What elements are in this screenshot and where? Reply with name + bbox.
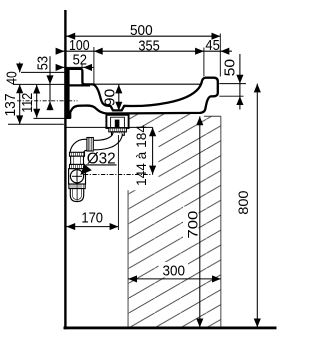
label diameter 32: [80, 151, 116, 175]
trap cup: [70, 189, 83, 202]
trap housing: [69, 169, 86, 184]
washbasin cross-section: [66, 69, 218, 118]
trap S-pipe: [94, 133, 118, 145]
basin deck cut line under rear ledge: [67, 84, 90, 86]
svg-text:53: 53: [34, 56, 51, 70]
elbow lower ring: [70, 152, 85, 156]
svg-text:300: 300: [163, 263, 186, 280]
svg-text:137: 137: [2, 94, 19, 117]
trap body pipe: [71, 156, 84, 164]
svg-text:45: 45: [205, 37, 219, 54]
adjustable-range reference line: [66, 126, 108, 128]
svg-text:700: 700: [185, 210, 201, 238]
fixing holes centreline: [17, 100, 78, 102]
wall: [64, 10, 66, 329]
drain flange nut: [109, 128, 127, 132]
reference line rim top right: [219, 83, 246, 85]
hatch zone top edge (right part): [204, 115, 221, 117]
dimension 90: [101, 85, 122, 111]
hatch zone right edge: [220, 116, 222, 327]
hatched pedestal zone: [128, 113, 221, 328]
trap cleanout circle: [70, 170, 83, 183]
reference line ledge top level: [21, 71, 64, 73]
white label box for 300 dimension: [159, 262, 189, 278]
reference line rim lip bottom: [219, 95, 243, 97]
trap vertical centreline: [76, 170, 78, 201]
svg-text:144 à 184: 144 à 184: [134, 125, 149, 186]
dimension 800: [236, 84, 261, 328]
svg-text:355: 355: [138, 37, 159, 54]
basin far rim line across bowl: [94, 83, 203, 85]
extension line tap ledge edge 52: [81, 64, 83, 86]
extension line 100/355 junction: [93, 47, 95, 85]
reference line basin underside level: [34, 117, 65, 119]
trap outlet centreline: [84, 174, 153, 176]
hatch zone left edge: [127, 113, 129, 328]
svg-text:40: 40: [4, 71, 21, 85]
dimension 144 a 184: [134, 125, 156, 186]
extension line 355/45 junction: [203, 48, 205, 77]
trap inlet nut: [87, 138, 93, 152]
svg-text:800: 800: [236, 190, 251, 214]
drain tail nut: [112, 132, 125, 135]
drain body: [106, 115, 128, 128]
reference line bracket bottom level: [8, 123, 64, 125]
svg-text:90: 90: [101, 89, 118, 107]
dimension 52: [56, 52, 94, 71]
drain recess slant cover: [106, 115, 128, 135]
svg-text:50: 50: [222, 59, 239, 76]
floor: [64, 327, 277, 330]
trap elbow: [70, 139, 88, 155]
svg-text:170: 170: [81, 209, 103, 226]
dimension 40 / 137: [2, 62, 23, 124]
reference line rim top level: [13, 83, 64, 85]
dimension chain 100/355/45: [56, 37, 232, 55]
dimension 700: [185, 116, 204, 327]
dimension 170: [66, 135, 118, 230]
extension line basin right edge: [219, 34, 221, 77]
svg-text:52: 52: [73, 52, 87, 69]
trap collar ring: [70, 164, 85, 168]
dimension 112: [19, 85, 40, 118]
trap lower ring: [69, 184, 85, 189]
white label box for 144-184 dimension: [128, 128, 159, 190]
dimension 50: [222, 54, 244, 110]
white label box for 700 dimension: [183, 207, 199, 244]
basin rear mounting wall (solid): [66, 69, 69, 118]
dimension 53: [34, 56, 53, 110]
dimension 500: [66, 22, 220, 40]
dimension 300: [128, 263, 221, 283]
svg-text:112: 112: [19, 93, 36, 113]
